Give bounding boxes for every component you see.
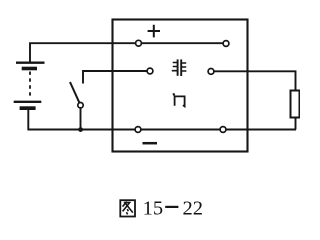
svg-text:22: 22 [183, 198, 204, 220]
svg-text:15: 15 [143, 198, 164, 220]
